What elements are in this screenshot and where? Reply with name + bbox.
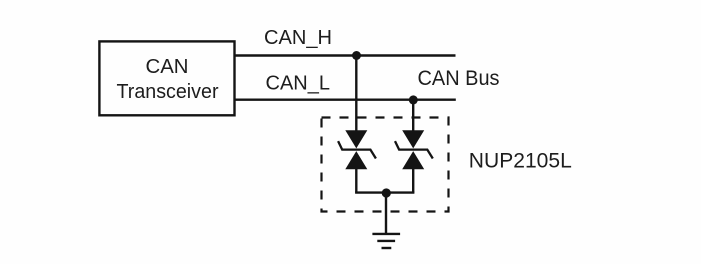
svg-text:CAN_H: CAN_H	[264, 27, 332, 49]
wire: common anode rail	[355, 191, 414, 193]
node: junction dot on CAN_H	[352, 51, 361, 60]
wire: D2 anode lead down to common rail	[412, 169, 414, 193]
CAN transceiver box U1	[99, 41, 234, 115]
TVS diode D2 (bidirectional zener, right)	[395, 130, 433, 169]
ground	[372, 234, 400, 248]
node: junction dot on CAN_L	[409, 95, 418, 104]
wire: common node down to ground	[385, 193, 387, 234]
package outline NUP2105L (dashed box)	[322, 118, 449, 212]
node: common junction dot	[382, 188, 391, 197]
svg-text:Transceiver: Transceiver	[117, 81, 219, 103]
wire CAN_L	[235, 98, 456, 100]
wire CAN_H	[235, 54, 456, 56]
wire: CAN_H junction down to D1 cathode	[355, 56, 357, 132]
svg-text:NUP2105L: NUP2105L	[469, 149, 572, 172]
wire: D1 anode lead down to common rail	[355, 169, 357, 193]
wire: CAN_L junction down to D2 cathode	[412, 100, 414, 131]
TVS diode D1 (bidirectional zener, left)	[338, 130, 376, 169]
svg-text:CAN_L: CAN_L	[266, 73, 331, 95]
svg-text:CAN: CAN	[146, 56, 189, 78]
svg-text:CAN Bus: CAN Bus	[418, 67, 500, 90]
